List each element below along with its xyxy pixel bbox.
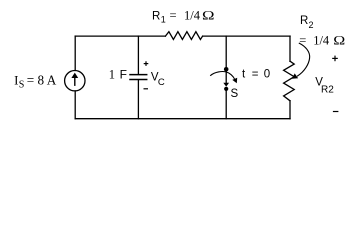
svg-text:= 8 A: = 8 A (27, 72, 57, 87)
svg-text:R: R (300, 15, 308, 27)
current source arrow (74, 77, 76, 86)
switch motion arc (211, 72, 235, 80)
switch arm arrowhead (223, 83, 229, 87)
svg-text:Ω: Ω (202, 9, 215, 23)
label VC (151, 72, 165, 88)
switch arm wire (225, 71, 227, 83)
label = 1/4 ohm (R2) (299, 33, 345, 47)
label R2 (300, 15, 314, 30)
switch motion arc arrowhead (232, 78, 237, 84)
svg-text:=: = (299, 33, 306, 47)
svg-text:1/4: 1/4 (184, 9, 201, 23)
label t = 0 (242, 68, 270, 80)
resistor R2 (284, 61, 295, 101)
svg-text:2: 2 (309, 20, 314, 30)
R2 annotation arrowhead (292, 73, 298, 78)
svg-text:1: 1 (109, 68, 115, 82)
wire bottom (75, 118, 290, 120)
svg-text:R: R (152, 11, 160, 23)
svg-text:1: 1 (161, 14, 166, 24)
capacitor minus sign (144, 88, 149, 90)
label VR2 (315, 77, 334, 96)
wire top-left segment (75, 35, 165, 37)
capacitor plus sign (144, 61, 149, 66)
wire left branch upper (74, 36, 76, 70)
svg-text:F: F (120, 68, 127, 82)
svg-text:1/4: 1/4 (313, 33, 330, 47)
wire right branch lower (289, 101, 291, 119)
svg-text:=: = (252, 68, 259, 80)
wire capacitor branch lower (137, 80, 139, 119)
wire right branch upper (289, 36, 291, 61)
svg-text:=: = (170, 9, 177, 23)
R2 plus sign (332, 56, 338, 62)
wire capacitor branch upper (137, 36, 139, 74)
label IS = 8 A (14, 72, 57, 90)
svg-text:S: S (19, 79, 25, 90)
label R1 = 1/4 ohm (152, 9, 215, 25)
resistor R1 (165, 32, 202, 40)
wire top-right segment (203, 35, 290, 37)
wire left branch lower (74, 91, 76, 119)
svg-text:C: C (158, 77, 165, 88)
wire switch branch lower (225, 91, 227, 119)
R2 annotation arc (298, 43, 310, 76)
R2 minus sign (333, 111, 339, 113)
capacitor C plates (130, 75, 147, 80)
svg-text:S: S (231, 88, 239, 100)
svg-text:0: 0 (264, 68, 270, 80)
svg-text:Ω: Ω (333, 33, 345, 47)
switch node dot bottom (224, 87, 228, 91)
current source IS circle (65, 71, 85, 91)
switch node dot top (224, 67, 229, 72)
wire switch branch upper (225, 36, 227, 67)
svg-text:R2: R2 (321, 84, 334, 95)
label 1 F (109, 68, 127, 82)
